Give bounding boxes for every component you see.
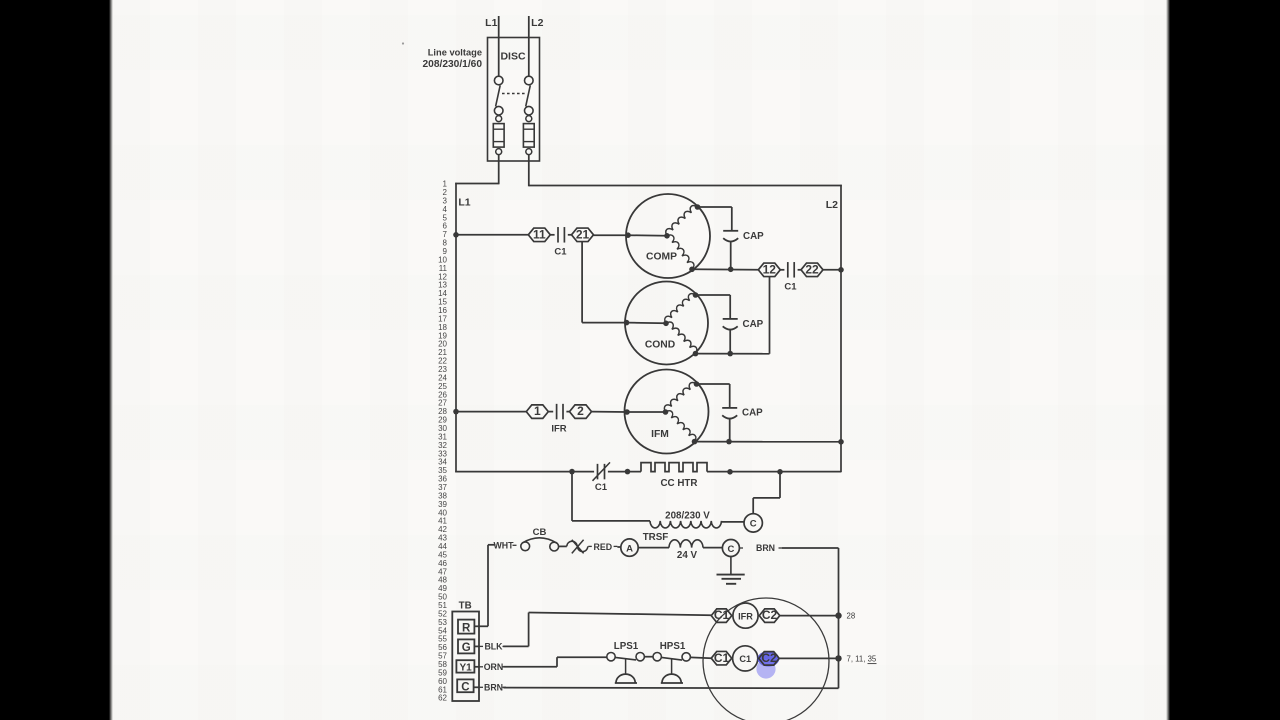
contact C1 pole 21 <box>572 228 594 242</box>
wire L2 lead-in <box>528 16 530 76</box>
label BRN (bottom) <box>480 686 484 688</box>
svg-text:208/230/1/60: 208/230/1/60 <box>423 59 483 70</box>
junction COMP bottom <box>689 267 695 273</box>
winding COMP start <box>667 235 694 269</box>
contact IFR gap <box>556 404 558 420</box>
wire LPS1 to HPS1 <box>644 656 653 658</box>
junction cap bottom (COMP) <box>728 267 734 273</box>
svg-text:C: C <box>461 681 469 693</box>
switch HPS1 blade <box>661 657 682 660</box>
terminal C box <box>457 679 473 692</box>
svg-text:L1: L1 <box>458 197 470 209</box>
transformer TRSF secondary winding <box>669 540 703 548</box>
svg-text:C1: C1 <box>784 282 797 293</box>
wire 21-stub into COND <box>582 322 626 324</box>
junction right rail line 11 <box>838 267 844 273</box>
svg-text:L2: L2 <box>531 17 543 29</box>
terminal A circle <box>621 539 638 556</box>
main box right border rail L2 <box>840 185 842 473</box>
svg-text:COMP: COMP <box>646 252 677 263</box>
svg-text:DISC: DISC <box>500 51 526 63</box>
heater CC HTR element <box>641 463 707 472</box>
contact C1 gap (COMP) <box>557 227 559 243</box>
svg-text:CC HTR: CC HTR <box>660 478 697 489</box>
ground symbol <box>730 557 732 575</box>
svg-text:2: 2 <box>577 404 584 418</box>
wire gap to contact 22 <box>798 269 801 271</box>
junction COMP left terminal <box>625 232 631 238</box>
contact IFR pole 1 <box>526 405 548 419</box>
svg-text:ORN: ORN <box>484 662 504 672</box>
svg-text:R: R <box>462 622 471 634</box>
junction IFM left terminal <box>624 409 630 415</box>
contact C1 gap (right) <box>787 262 789 278</box>
switch pole L1 top contact <box>494 76 503 85</box>
transformer TRSF primary winding <box>650 521 721 528</box>
motor COMP circle <box>626 194 710 278</box>
svg-text:CAP: CAP <box>743 231 764 242</box>
junction cap bottom (COND) <box>727 351 733 357</box>
junction IFM top-right <box>694 381 700 387</box>
junction COND left terminal <box>624 320 630 326</box>
switch LPS1 diaphragm <box>616 674 635 683</box>
terminal block TB outline <box>452 612 479 702</box>
switch HPS1 actuator stem <box>671 659 673 675</box>
svg-text:C1: C1 <box>714 608 730 622</box>
switch pole L2 top contact <box>525 76 534 85</box>
wire heater to L2 rail <box>707 471 841 473</box>
wire fuse F2 to main box <box>528 154 530 186</box>
fuse F2 top terminal <box>526 116 532 122</box>
svg-text:HPS1: HPS1 <box>660 641 686 652</box>
junction bottom border transformer tap <box>569 469 575 475</box>
wire cap to COMP bottom wire <box>730 242 732 270</box>
junction IFM bottom <box>692 439 698 445</box>
wire 11 to C1 gap <box>550 234 554 236</box>
wire C2 to right rail (compressor row) <box>779 657 838 659</box>
wire WHT riser elbow <box>488 544 496 546</box>
breaker CB right terminal <box>550 542 559 551</box>
svg-text:21: 21 <box>576 227 590 241</box>
terminal G box <box>458 639 474 653</box>
switch HPS1 right terminal <box>682 653 690 661</box>
wire L1 lead-in <box>498 16 500 76</box>
svg-text:BLK: BLK <box>484 642 503 652</box>
switch HPS1 left terminal <box>653 653 661 661</box>
svg-text:A: A <box>626 543 633 554</box>
wire C1 to heater <box>608 471 641 473</box>
svg-text:Y1: Y1 <box>459 663 472 674</box>
junction right rail line 31 <box>838 439 844 445</box>
wire COMP top to cap <box>698 206 732 208</box>
wire COND bottom to 12-stub <box>696 353 770 355</box>
svg-text:62: 62 <box>438 694 447 703</box>
wire BLK riser <box>528 613 530 647</box>
disconnect DISC box <box>488 38 540 162</box>
contact C1 (IFR row) <box>711 609 732 623</box>
switch pole L1 bottom contact <box>494 106 503 115</box>
svg-text:C1: C1 <box>595 482 608 493</box>
wire G stub <box>474 645 478 647</box>
svg-text:C1: C1 <box>714 651 730 665</box>
contact C1 (compressor row) <box>711 651 732 665</box>
wire into COMP center <box>628 234 667 237</box>
main box top border left segment <box>455 183 499 185</box>
terminal R box <box>458 620 474 634</box>
wire 21 to COMP motor <box>594 234 629 236</box>
terminal Y1 box <box>456 660 474 672</box>
svg-text:1: 1 <box>534 404 541 418</box>
wire 12 to C1 gap <box>780 269 784 271</box>
motor COND circle <box>625 282 708 365</box>
switch LPS1 blade <box>615 657 636 660</box>
switch HPS1 diaphragm <box>662 674 681 683</box>
svg-text:LPS1: LPS1 <box>614 641 639 652</box>
switch pole L2 blade <box>526 85 531 106</box>
svg-text:TB: TB <box>459 601 472 612</box>
junction heater left <box>625 469 631 475</box>
svg-text:BRN: BRN <box>756 543 775 553</box>
svg-text:C: C <box>727 544 734 555</box>
wire COND top to cap <box>696 294 731 296</box>
wire secondary to C <box>703 547 722 549</box>
switch pole L2 bottom contact <box>525 106 534 115</box>
junction COND bottom <box>693 351 699 357</box>
junction right rail line 57 <box>835 655 841 661</box>
wire stub below 21 <box>581 242 583 323</box>
wire WHT riser <box>487 545 489 627</box>
svg-text:C: C <box>750 519 757 530</box>
fuse F2 body <box>523 124 534 148</box>
fuse F2 bottom terminal <box>526 149 532 155</box>
winding IFM run <box>664 382 696 412</box>
switch LPS1 right terminal <box>636 653 644 661</box>
wire R to WHT riser <box>474 625 488 627</box>
wire COMP bottom to contact 12 <box>692 268 759 271</box>
label RED <box>588 545 592 547</box>
svg-text:12: 12 <box>763 262 777 276</box>
wire HPS1 to contact C1 row <box>690 656 711 659</box>
contact C1 crossed (CC HTR) <box>597 464 599 480</box>
wire into IFM center <box>627 411 666 413</box>
motor IFM circle <box>625 370 709 454</box>
wire G row to contact C1 (IFR row) <box>529 613 712 616</box>
wire IFM top to cap <box>697 383 730 385</box>
contact C2 (compressor row) <box>759 652 780 666</box>
svg-text:C1: C1 <box>739 654 751 664</box>
svg-text:208/230 V: 208/230 V <box>665 511 710 522</box>
contact IFR pole 2 <box>570 405 592 419</box>
switch pole L1 blade <box>496 85 501 106</box>
svg-text:CAP: CAP <box>742 408 763 419</box>
wire number index column 1-62 <box>438 180 447 703</box>
junction COMP top-right <box>695 204 701 210</box>
plug connector symbol <box>567 541 577 546</box>
label BRN (secondary) <box>739 547 743 549</box>
terminal C (secondary) circle <box>722 540 739 557</box>
node COMP center <box>664 233 670 239</box>
wire RED to A terminal <box>617 546 620 548</box>
switch LPS1 left terminal <box>607 653 615 661</box>
svg-text:CAP: CAP <box>743 319 764 330</box>
svg-text:7, 11, 35: 7, 11, 35 <box>847 655 877 664</box>
svg-text:TRSF: TRSF <box>643 532 669 543</box>
label BLK <box>480 645 484 647</box>
svg-text:11: 11 <box>533 227 546 241</box>
wire C terminal up to box <box>752 498 754 514</box>
main box left border rail L1 <box>455 183 457 473</box>
winding IFM start <box>666 411 696 442</box>
svg-text:L2: L2 <box>826 199 838 211</box>
svg-text:Line voltage: Line voltage <box>428 48 482 58</box>
winding COND start <box>666 322 697 354</box>
wire ORN riser <box>556 657 558 667</box>
svg-text:C2: C2 <box>762 608 778 622</box>
annotation highlight circle <box>703 598 829 720</box>
switch LPS1 actuator stem <box>625 659 627 675</box>
svg-text:28: 28 <box>847 612 856 621</box>
node IFM center <box>663 409 669 415</box>
wire ORN row to LPS1 <box>557 656 607 658</box>
svg-text:WHT: WHT <box>493 540 514 550</box>
svg-text:C2: C2 <box>761 651 777 665</box>
svg-text:22: 22 <box>805 262 819 276</box>
contact C1 pole 12 <box>758 263 780 277</box>
wire cap to COND bottom wire <box>729 330 731 354</box>
capacitor CAP (COND) plates <box>723 318 738 320</box>
wire tap down to primary <box>571 472 573 521</box>
switch tie dashed link <box>502 93 525 95</box>
main box bottom border left <box>455 471 594 473</box>
main box top border right segment <box>529 185 842 187</box>
node COND center <box>663 321 669 327</box>
wire stub below 12 <box>769 277 771 354</box>
wire IFM bottom to L2 rail <box>695 441 842 443</box>
relay coil IFR circle <box>733 603 758 628</box>
svg-text:BRN: BRN <box>484 683 503 693</box>
wire 2 to IFM motor <box>592 411 628 413</box>
wire L1 to contact 11 <box>456 234 529 236</box>
junction heater right <box>727 469 733 475</box>
junction COND top-right <box>693 292 699 298</box>
junction left rail line 7 <box>453 232 459 238</box>
svg-text:IFR: IFR <box>738 611 753 621</box>
label ORN <box>480 666 484 668</box>
fuse F1 body <box>493 124 504 148</box>
junction left rail line 28 <box>453 409 459 415</box>
wire BRN bottom run <box>503 687 838 690</box>
winding COND run <box>665 294 696 324</box>
capacitor CAP (IFM) plates <box>722 407 737 409</box>
wire C2 to right rail (IFR row) <box>780 615 839 617</box>
wire ORN to riser <box>503 666 557 668</box>
highlight blue marker <box>758 651 780 667</box>
contact C2 (IFR row) <box>759 609 780 623</box>
svg-text:RED: RED <box>594 542 613 552</box>
wire into COND center <box>627 322 667 325</box>
wire cap to IFM bottom wire <box>729 419 731 442</box>
paper speck <box>402 42 404 44</box>
wire BLK to riser <box>503 645 528 647</box>
wire primary to C terminal <box>722 521 745 523</box>
wire CB to plug <box>559 545 567 547</box>
capacitor CAP (COMP) plates <box>723 230 738 232</box>
terminal C (primary) circle <box>744 514 762 532</box>
svg-text:CB: CB <box>533 527 547 538</box>
right control rail lower <box>838 616 840 689</box>
wire C1 gap to contact 21 <box>568 234 573 236</box>
wire 22 to L2 rail <box>823 269 841 271</box>
svg-text:COND: COND <box>645 340 675 351</box>
fuse F1 bottom terminal <box>496 149 502 155</box>
svg-text:L1: L1 <box>485 17 497 29</box>
breaker CB left terminal <box>521 542 530 551</box>
wire IFR gap to contact 2 <box>566 411 569 413</box>
junction cap bottom (IFM) <box>726 439 732 445</box>
wire fuse F1 to main box <box>498 154 500 184</box>
fuse F1 top terminal <box>496 116 502 122</box>
wire BRN to right rail <box>782 547 839 549</box>
right control rail upper <box>838 548 840 616</box>
junction bottom border C-riser tap <box>777 469 783 475</box>
wire Y1 stub <box>474 666 478 668</box>
svg-text:C1: C1 <box>554 247 567 258</box>
wire 1 to IFR gap <box>548 411 553 413</box>
junction right rail line 52 <box>835 612 841 618</box>
contact C1 pole 22 <box>801 263 823 277</box>
winding COMP run <box>666 206 698 236</box>
wire C stub <box>474 686 479 688</box>
relay coil C1 circle <box>733 646 758 671</box>
svg-text:24 V: 24 V <box>677 550 698 561</box>
wire A to secondary <box>638 547 669 549</box>
contact C1 pole 11 <box>528 228 550 242</box>
wire L1 to contact 1 <box>456 411 527 413</box>
svg-text:IFM: IFM <box>651 429 669 440</box>
svg-text:G: G <box>462 642 471 654</box>
svg-text:IFR: IFR <box>551 424 566 435</box>
breaker CB arc <box>522 538 557 543</box>
